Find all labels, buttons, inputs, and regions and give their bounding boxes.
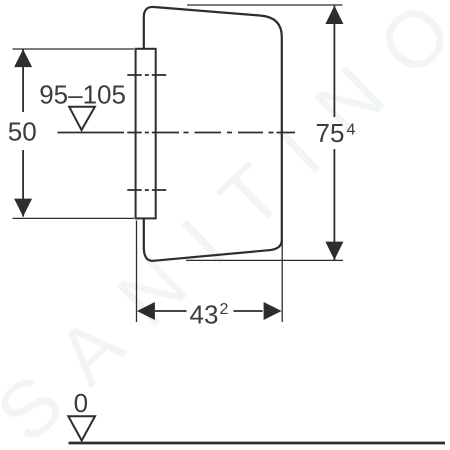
svg-text:2: 2 — [220, 301, 229, 318]
svg-text:43: 43 — [190, 299, 219, 329]
svg-text:0: 0 — [74, 388, 88, 418]
svg-text:50: 50 — [8, 117, 37, 147]
svg-text:75: 75 — [316, 118, 345, 148]
svg-text:95–105: 95–105 — [39, 79, 126, 109]
svg-text:4: 4 — [347, 122, 356, 139]
